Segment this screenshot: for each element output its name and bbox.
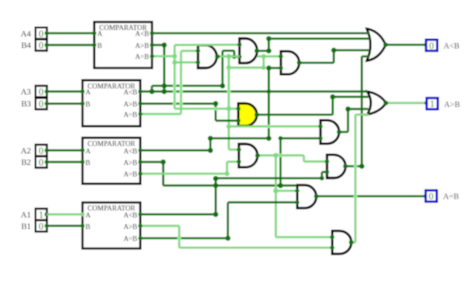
wire G7 output [343, 164, 364, 169]
comparator U1 (bit 4) [94, 22, 152, 68]
wire O2 output to pin (high) [384, 101, 429, 106]
label A<B [444, 42, 461, 51]
wire to G8 lower input [228, 200, 299, 204]
svg-text:A>B: A>B [123, 159, 137, 167]
wire U4.A>B out (high) [138, 224, 179, 228]
output pin A<B value 0 [426, 40, 437, 51]
wire U3.A>B out [138, 159, 165, 164]
svg-text:A: A [86, 147, 92, 155]
svg-text:0: 0 [39, 30, 44, 40]
svg-text:1: 1 [430, 99, 435, 109]
AND gate G3 [281, 51, 299, 74]
wire to G6 upper input (high) [229, 148, 241, 152]
wire loop right vertical (high) [263, 56, 265, 67]
wire loop bottom (high) [229, 65, 266, 70]
wire to G5 lower input [278, 136, 322, 140]
wire U4.A<B out [138, 212, 218, 217]
wire G8 output to pin [314, 194, 428, 199]
wire to O1 input 3 [334, 49, 370, 51]
wire A1 to U4.A (high) [47, 212, 85, 216]
svg-text:A=B: A=B [443, 192, 460, 201]
AND gate G5 [321, 120, 340, 143]
junction blob x181 lineA [179, 84, 183, 88]
label A4 [21, 29, 32, 38]
label B4 [21, 41, 32, 50]
svg-text:A=B: A=B [123, 111, 137, 119]
input pin A4 value 0 [36, 28, 49, 40]
wire to O2 input 3 [348, 108, 368, 110]
input pin B1 value 0 [36, 220, 49, 232]
wire right y178 [216, 177, 322, 179]
wire branch across y86 [152, 83, 225, 88]
svg-text:B: B [86, 223, 91, 231]
junction blob x355 A=B wire [353, 194, 357, 198]
wire A3 to U2.A [47, 89, 85, 93]
AND gate G6 [239, 144, 258, 167]
svg-text:A>B: A>B [123, 101, 137, 109]
OR gate O1 [367, 29, 386, 61]
wire up x228 [227, 202, 229, 238]
svg-text:A1: A1 [21, 211, 31, 220]
wire up x210 [209, 138, 211, 150]
label B2 [21, 158, 31, 167]
AND gate G9 [332, 231, 351, 254]
wire to G2 upper input (high) [175, 43, 242, 47]
svg-text:A<B: A<B [123, 89, 137, 97]
wire A4 to U1.A [47, 31, 97, 35]
output pin A>B value 1 [427, 98, 438, 109]
svg-text:A>B: A>B [123, 223, 137, 231]
wire G4 out up [332, 97, 334, 115]
wire G5 out up [345, 106, 350, 132]
svg-text:A: A [86, 89, 92, 97]
svg-text:B1: B1 [21, 222, 31, 231]
AND gate G7 [327, 155, 346, 178]
wire to G3 lower input [266, 65, 283, 70]
svg-text:0: 0 [39, 100, 44, 110]
wire vertical x276 (high) [273, 156, 278, 238]
wire U2.A=B out (high) [138, 112, 181, 116]
wire up to G2 row [221, 51, 223, 86]
comparator U3 (bit 2) [83, 138, 141, 184]
comparator U4 (bit 1) [83, 203, 141, 249]
wire U3.A<B out [138, 148, 213, 153]
wire to O2 input 2 [330, 94, 368, 99]
wire G1 out vertical (high) [226, 57, 231, 150]
wire U2.A<B main [138, 89, 367, 94]
wire to G7 upper input (high) [304, 159, 329, 163]
wire U1.A<B to O1 input 1 [150, 31, 370, 35]
OR gate O2 [367, 92, 386, 115]
junction blob x174 lineA [173, 84, 177, 88]
wire up x227 (high) [226, 162, 228, 174]
wire U1.A>B down [162, 45, 167, 94]
svg-text:A3: A3 [21, 88, 31, 97]
svg-text:A=B: A=B [123, 235, 137, 243]
svg-text:B: B [97, 42, 102, 50]
wire U2.A>B out [138, 101, 218, 106]
wire G7 out up x362 [361, 56, 363, 166]
wire vertical x174 (high) [174, 45, 176, 109]
wire vertical x181 (high) [180, 51, 182, 114]
wire to O2 input 4 (high) [355, 113, 368, 115]
wire branch up at x152 [151, 86, 153, 92]
wire to O1 input 2 [269, 37, 370, 39]
label A1 [21, 211, 31, 220]
svg-text:B3: B3 [21, 100, 31, 109]
svg-text:B: B [86, 101, 91, 109]
wire into G2 lower input [234, 55, 241, 59]
wire right y185 [163, 183, 297, 188]
label A=B [443, 192, 460, 201]
wire to G1 lower input (high) [172, 60, 200, 65]
wire to G9 lower input (high) [179, 246, 334, 250]
svg-text:A>B: A>B [444, 100, 461, 109]
wire G2 output [254, 49, 268, 54]
junction blob x355 G7 out [353, 164, 357, 168]
input pin A1 value 1 [36, 209, 49, 221]
input pin A3 value 0 [36, 86, 49, 98]
wire to G4 upper input (high) [175, 107, 241, 111]
wire B2 to U3.B [47, 160, 85, 164]
svg-text:0: 0 [39, 42, 44, 52]
input pin B3 value 0 [36, 98, 49, 110]
junction blob x174 line1 [172, 89, 176, 93]
wire G4 output [254, 112, 332, 117]
label A2 [21, 147, 31, 156]
label A3 [21, 88, 31, 97]
comparator U2 (bit 3) [83, 80, 141, 126]
wire up x216 [213, 176, 218, 215]
junction blob x280 G6 out [279, 153, 283, 157]
wire G5 output [337, 130, 348, 135]
AND gate G8 [297, 185, 316, 208]
wire U1.A=B out (high) [150, 54, 177, 59]
svg-text:B: B [86, 159, 91, 167]
wire G9 out up x355 (high) [354, 115, 356, 243]
junction blob x181 line2 [179, 101, 183, 105]
svg-text:A<B: A<B [123, 147, 137, 155]
svg-text:A<B: A<B [135, 30, 149, 38]
svg-text:0: 0 [39, 159, 44, 169]
junction blob x269 G5 feed [267, 124, 271, 128]
wire to G9 upper input (high) [276, 235, 335, 239]
AND gate G4 (selected, yellow) [238, 103, 256, 126]
junction blob x174 line2 [172, 101, 176, 105]
output pin A=B value 0 [426, 190, 437, 201]
wire B4 to U1.B [47, 43, 97, 47]
svg-text:A<B: A<B [123, 211, 137, 219]
wire B1 to U4.B [47, 224, 85, 228]
svg-text:0: 0 [429, 41, 434, 51]
svg-text:A<B: A<B [444, 42, 461, 51]
wire O1 output to pin [383, 43, 428, 48]
wire down to G4 row [215, 104, 217, 121]
wire jog down x304 (high) [303, 155, 305, 161]
wire G3 out up [331, 48, 336, 63]
wire G1 output (high) [215, 54, 239, 59]
svg-text:A=B: A=B [123, 171, 137, 179]
wire to G5 upper input (high) [229, 124, 323, 128]
junction blob yellow feed [214, 107, 218, 111]
svg-text:B4: B4 [21, 41, 32, 50]
wire to G8 upper input (high) [276, 189, 300, 193]
wire to G1 upper input (high) [181, 49, 200, 53]
svg-text:0: 0 [39, 223, 44, 233]
wire up x280 [279, 138, 281, 185]
wire down x179 (high) [178, 226, 180, 248]
wire U3.A=B out (high) [138, 171, 229, 176]
wire G2 out branch up [266, 36, 271, 53]
junction blob x181 line1 [179, 89, 183, 93]
label A>B [444, 100, 461, 109]
wire down x163 [162, 162, 164, 186]
wire to G6 lower input (high) [227, 160, 241, 164]
wire G3 output [297, 61, 334, 66]
wire U4.A=B out [138, 236, 230, 241]
wire right y138 [208, 136, 272, 141]
wire up x321 [320, 172, 324, 180]
label B1 [21, 222, 31, 231]
svg-text:A2: A2 [21, 147, 31, 156]
svg-text:A4: A4 [21, 29, 32, 38]
svg-text:B2: B2 [21, 158, 31, 167]
svg-text:0: 0 [429, 192, 434, 202]
AND gate G2 [240, 39, 258, 64]
wire to G4 lower input [216, 119, 241, 123]
wire jog down [232, 51, 236, 59]
input pin B2 value 0 [36, 156, 49, 168]
wire right to jog [223, 50, 235, 52]
junction blob x179 U4 A=B wire [177, 236, 181, 240]
AND gate G1 [198, 45, 217, 68]
svg-text:0: 0 [39, 88, 44, 98]
wire B3 to U2.B [47, 102, 85, 106]
wire to O1 input 4 [362, 55, 370, 57]
input pin B4 value 0 [36, 39, 49, 51]
wire G9 output (high) [349, 240, 355, 245]
wire U1.A>B right [150, 42, 167, 47]
wire vertical x269 [267, 68, 271, 138]
svg-text:A=B: A=B [135, 53, 149, 61]
input pin A2 value 0 [36, 145, 49, 157]
wire to G7 lower input [322, 170, 329, 174]
junction blob x229 line1 [227, 89, 231, 93]
wire G6 output (high) [255, 153, 304, 158]
svg-text:A>B: A>B [135, 42, 149, 50]
wire A2 to U3.A [47, 148, 85, 152]
wire G1 out to G3 upper (high) [257, 54, 283, 59]
label B3 [21, 100, 31, 109]
svg-text:A: A [97, 30, 103, 38]
svg-text:A: A [86, 211, 92, 219]
